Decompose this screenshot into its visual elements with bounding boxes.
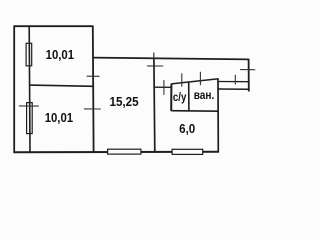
wall top-left horizontal <box>14 25 93 27</box>
wall right of left block vertical <box>92 26 95 153</box>
window upper-left room <box>26 43 32 66</box>
svg-text:ван.: ван. <box>194 88 215 102</box>
bath box bottom edge <box>171 110 218 113</box>
tick wall154 top vertical <box>153 53 155 62</box>
wall between 15,25 and 6,0 <box>153 59 156 153</box>
tick wall93 upper <box>87 75 100 77</box>
wall divider between rooms 10,01 <box>30 85 94 86</box>
svg-text:6,0: 6,0 <box>179 121 195 136</box>
tick bath slope 2 <box>199 72 201 85</box>
label room right 6,0 <box>179 121 195 136</box>
bath box left edge <box>170 84 172 111</box>
tick wall93 lower <box>84 108 101 110</box>
wall channel top horizontal <box>219 81 249 83</box>
wall right of 6,0 vertical <box>217 79 219 152</box>
wall inner left vertical (rooms left wall) <box>28 26 31 153</box>
tick connector vertical <box>163 80 165 95</box>
bath box sloped top edge <box>171 79 218 84</box>
tick wall154 horizontal <box>147 65 163 67</box>
svg-text:с/у: с/у <box>173 90 187 104</box>
svg-text:15,25: 15,25 <box>110 94 139 109</box>
wall outer right vertical <box>248 59 250 92</box>
bath box divider s/u and van <box>188 82 190 111</box>
window bottom right room <box>172 149 203 154</box>
wall bottom horizontal <box>13 151 219 153</box>
label room lower-left 10,01 <box>45 110 73 125</box>
label room upper-left 10,01 <box>46 47 74 62</box>
tick bath slope 1 <box>181 73 183 86</box>
tick right wall horizontal <box>240 69 255 71</box>
window bottom middle room <box>108 149 141 154</box>
wall outer left vertical <box>13 25 15 152</box>
label room middle 15,25 <box>110 94 139 109</box>
label bathroom van <box>194 88 215 102</box>
window lower-left room <box>27 103 33 134</box>
wall channel bottom horizontal <box>218 88 249 90</box>
tick channel vertical <box>234 75 236 85</box>
wall top-right horizontal <box>93 58 249 60</box>
tick lower window top <box>19 105 39 107</box>
svg-text:10,01: 10,01 <box>46 47 74 62</box>
label toilet s/u <box>173 90 187 104</box>
svg-text:10,01: 10,01 <box>45 110 73 125</box>
wall connector to bath box <box>154 86 171 88</box>
